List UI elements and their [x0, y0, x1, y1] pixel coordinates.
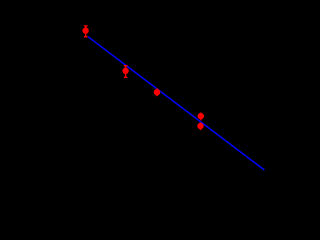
data point 5 error bar [200, 122, 202, 130]
data point 1 marker [82, 27, 88, 33]
data point 4 error bar [200, 113, 202, 121]
data point 4 marker [198, 113, 204, 119]
data point 1 error bar [84, 26, 88, 37]
data point 2 error bar [124, 65, 128, 77]
data point 2 marker [122, 68, 128, 74]
data point 3 marker [154, 89, 160, 95]
data point 3 error bar [156, 88, 158, 96]
data point 5 marker [197, 123, 203, 129]
fit line [88, 37, 264, 170]
